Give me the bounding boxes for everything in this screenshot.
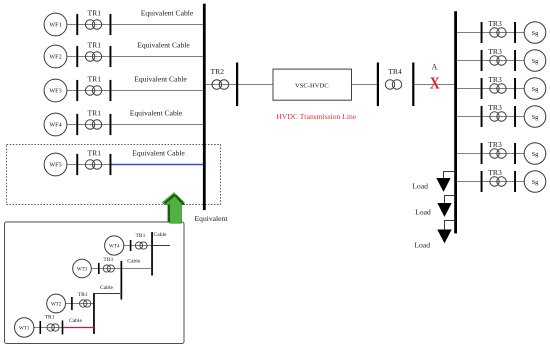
svg-text:Cable: Cable: [127, 258, 141, 264]
svg-text:Equivalent Cable: Equivalent Cable: [141, 9, 194, 18]
svg-text:TR1: TR1: [88, 40, 102, 49]
svg-text:WF4: WF4: [49, 122, 61, 129]
svg-text:WF1: WF1: [49, 22, 61, 29]
svg-text:TR1: TR1: [88, 108, 102, 117]
svg-text:TR2: TR2: [211, 67, 225, 76]
svg-text:Equivalent Cable: Equivalent Cable: [134, 75, 187, 84]
svg-text:Load: Load: [412, 182, 428, 191]
svg-text:Sg: Sg: [532, 114, 540, 121]
svg-text:TR1: TR1: [45, 315, 55, 321]
svg-text:Cable: Cable: [153, 232, 167, 238]
svg-text:TR3: TR3: [488, 103, 502, 112]
svg-text:WT2: WT2: [51, 302, 62, 307]
svg-text:TR3: TR3: [488, 47, 502, 56]
svg-text:TR3: TR3: [488, 168, 502, 177]
svg-text:TR3: TR3: [488, 140, 502, 149]
svg-text:TR4: TR4: [388, 67, 402, 76]
svg-text:TR3: TR3: [488, 75, 502, 84]
svg-text:Equivalent: Equivalent: [195, 214, 229, 223]
svg-text:A: A: [432, 63, 438, 72]
svg-text:TR1: TR1: [88, 8, 102, 17]
svg-text:TR1: TR1: [88, 74, 102, 83]
svg-text:WT1: WT1: [19, 326, 30, 331]
svg-text:X: X: [430, 75, 440, 92]
svg-text:WF5: WF5: [49, 162, 61, 169]
svg-text:Equivalent Cable: Equivalent Cable: [132, 149, 185, 158]
svg-text:TR1: TR1: [88, 148, 102, 157]
svg-text:Sg: Sg: [532, 30, 540, 37]
svg-text:Load: Load: [414, 241, 430, 250]
svg-text:Sg: Sg: [532, 179, 540, 186]
svg-text:Cable: Cable: [69, 318, 83, 324]
svg-text:TR1: TR1: [136, 233, 146, 239]
svg-text:WT3: WT3: [77, 267, 88, 272]
svg-text:TR1: TR1: [103, 257, 113, 263]
svg-text:HVDC Transmission Line: HVDC Transmission Line: [276, 112, 356, 121]
svg-text:Sg: Sg: [532, 151, 540, 158]
svg-text:Cable: Cable: [100, 285, 114, 291]
svg-text:VSC-HVDC: VSC-HVDC: [295, 82, 329, 89]
svg-text:TR3: TR3: [488, 19, 502, 28]
svg-text:Sg: Sg: [532, 86, 540, 93]
svg-text:WT4: WT4: [109, 244, 120, 249]
svg-text:Sg: Sg: [532, 58, 540, 65]
svg-text:WF3: WF3: [49, 88, 61, 95]
svg-text:Equivalent Cable: Equivalent Cable: [130, 109, 183, 118]
svg-text:TR1: TR1: [78, 292, 88, 298]
svg-text:Equivalent Cable: Equivalent Cable: [137, 41, 190, 50]
svg-text:WF2: WF2: [49, 54, 61, 61]
svg-text:Load: Load: [415, 208, 431, 217]
